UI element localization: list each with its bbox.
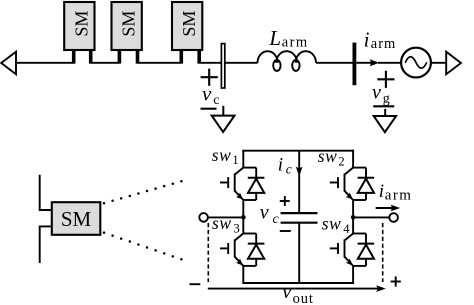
svg-text:sw: sw	[322, 214, 342, 234]
svg-text:arm: arm	[371, 36, 397, 52]
measurement bar i_arm (solid)	[353, 43, 357, 86]
svg-text:c: c	[286, 162, 292, 177]
wire	[199, 62, 221, 64]
svg-text:sw: sw	[212, 145, 232, 165]
wire right leg upper	[352, 150, 354, 168]
arrow terminal right	[446, 52, 461, 74]
SM lower lead	[40, 226, 52, 263]
submodule SM1	[64, 2, 94, 64]
wire left leg upper	[242, 150, 244, 168]
arrow terminal left	[1, 52, 16, 74]
wire middle branch upper	[298, 151, 300, 213]
wire	[378, 62, 400, 64]
label i_c	[278, 155, 292, 177]
plus label capacitor	[280, 196, 290, 206]
terminal circle left	[199, 213, 208, 222]
v_out measurement line with arrow	[208, 285, 386, 292]
ground right	[374, 109, 396, 132]
dotted zoom line lower	[103, 231, 183, 260]
capacitor bar (arm capacitor voltage measurement)	[221, 44, 224, 88]
AC source	[401, 48, 431, 78]
wire	[431, 62, 446, 64]
plus label v_c	[201, 69, 218, 86]
svg-text:out: out	[293, 291, 314, 305]
label v_c	[202, 82, 219, 108]
svg-text:i: i	[379, 181, 384, 202]
svg-text:v: v	[282, 281, 292, 303]
svg-text:v: v	[202, 82, 212, 106]
wire	[208, 216, 243, 218]
wire	[17, 62, 74, 64]
minus label v_g	[373, 105, 394, 107]
dashed line right	[382, 223, 384, 282]
minus label v_out	[190, 283, 201, 285]
svg-text:sw: sw	[318, 146, 338, 166]
svg-text:SM: SM	[61, 207, 92, 231]
inductor L_arm	[258, 51, 317, 71]
wire	[138, 62, 182, 64]
switch sw2 (IGBT Q2 + diode D2)	[330, 168, 374, 200]
svg-text:c: c	[273, 212, 280, 227]
label sw1	[212, 145, 239, 167]
switch sw4 (IGBT Q4 + diode D4)	[330, 234, 374, 266]
top rail	[242, 150, 354, 152]
label sw3	[212, 213, 240, 235]
label i_arm	[364, 27, 397, 52]
minus label v_c	[201, 108, 217, 110]
submodule SM3	[172, 2, 202, 64]
svg-text:1: 1	[232, 153, 238, 167]
plus label v_out	[391, 276, 401, 286]
label v_c capacitor	[260, 202, 280, 227]
svg-text:L: L	[268, 26, 281, 50]
wire	[353, 216, 389, 218]
bottom rail	[242, 282, 354, 284]
SM upper lead	[40, 175, 52, 210]
label v_out	[282, 281, 314, 305]
svg-text:3: 3	[234, 222, 240, 236]
wire	[316, 62, 353, 64]
wire right leg lower	[352, 266, 354, 283]
plus label v_g	[377, 71, 394, 88]
minus label capacitor	[280, 230, 291, 232]
svg-text:i: i	[278, 155, 283, 176]
svg-text:SM: SM	[119, 11, 139, 37]
wire left leg middle	[242, 200, 244, 233]
terminal circle right	[389, 213, 398, 222]
svg-text:2: 2	[338, 154, 344, 168]
node right midpoint	[351, 215, 356, 220]
label sw4	[322, 214, 351, 236]
wire	[91, 62, 120, 64]
wire right leg middle	[352, 200, 354, 233]
ground left	[212, 106, 235, 132]
svg-text:SM: SM	[71, 11, 91, 37]
node left midpoint	[241, 215, 246, 220]
dashed line left	[207, 223, 209, 282]
dotted zoom line upper	[103, 180, 183, 205]
svg-text:v: v	[260, 202, 269, 224]
label sw2	[318, 146, 345, 168]
svg-text:i: i	[364, 27, 370, 51]
svg-text:v: v	[372, 82, 381, 104]
current arrow i_c	[296, 167, 303, 177]
current arrow i_arm output	[376, 205, 401, 212]
svg-text:c: c	[213, 93, 219, 108]
label v_g	[372, 82, 390, 107]
svg-text:SM: SM	[179, 11, 199, 37]
wire left leg lower	[242, 266, 244, 283]
wire	[225, 62, 258, 64]
svg-text:g: g	[383, 92, 390, 107]
current arrow i_arm	[356, 59, 379, 66]
capacitor C (submodule)	[281, 213, 318, 223]
svg-text:4: 4	[343, 222, 350, 236]
label i_arm (output)	[379, 181, 413, 203]
svg-text:arm: arm	[282, 35, 309, 51]
wire middle branch lower	[298, 223, 300, 283]
switch sw3 (IGBT Q3 + diode D3)	[220, 234, 264, 266]
switch sw1 (IGBT Q1 + diode D1)	[220, 168, 264, 200]
svg-text:arm: arm	[385, 188, 413, 204]
submodule SM2	[112, 2, 142, 64]
label L_arm	[268, 26, 308, 51]
submodule SM (zoomed)	[52, 202, 101, 235]
svg-text:sw: sw	[212, 213, 232, 233]
